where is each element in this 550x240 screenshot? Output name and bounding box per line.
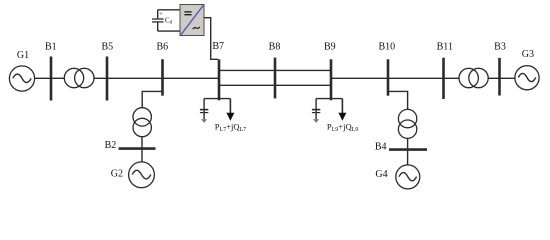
wire line B7-B9 circuit 1 — [219, 69, 331, 71]
svg-text:B10: B10 — [378, 41, 395, 52]
bus B3 — [498, 58, 501, 96]
wire T4 to G4 — [407, 138, 409, 165]
wire converter to B7 — [204, 18, 218, 60]
bus B8 — [274, 58, 277, 99]
converter dc symbol = — [184, 12, 191, 15]
generator G2 — [129, 162, 155, 188]
bus B1 — [50, 57, 53, 101]
svg-text:PL7+jQL7: PL7+jQL7 — [215, 121, 246, 133]
svg-text:B7: B7 — [212, 41, 224, 52]
load arrow L9 — [338, 99, 346, 121]
bus B5 — [106, 57, 109, 101]
wire B10 tap to T4 — [388, 91, 408, 109]
wire shunt capacitor B7 — [203, 99, 205, 120]
bus B2 — [119, 147, 156, 150]
svg-text:PL9+jQL9: PL9+jQL9 — [327, 121, 358, 133]
bus B11 — [442, 58, 445, 99]
capacitor Cd — [152, 10, 164, 31]
wire load tap at B7 — [204, 98, 230, 100]
converter diagonal — [181, 5, 203, 34]
generator G3 — [515, 66, 539, 90]
wire B6 tap to T3 — [142, 91, 162, 107]
svg-text:G2: G2 — [111, 168, 123, 179]
wire T3 to G2 — [141, 137, 143, 162]
wire shunt capacitor B9 — [315, 99, 317, 120]
bus B4 — [389, 148, 427, 151]
svg-text:+: + — [159, 11, 163, 18]
wire — [51, 77, 64, 79]
transformer T4 — [398, 109, 416, 138]
converter U1 box — [180, 5, 204, 36]
svg-text:Cd: Cd — [165, 16, 173, 25]
svg-text:G4: G4 — [375, 169, 387, 180]
svg-text:B2: B2 — [105, 140, 117, 151]
transformer T3 — [133, 108, 151, 137]
svg-text:B11: B11 — [437, 41, 453, 52]
load arrow L7 — [226, 99, 234, 121]
transformer T1 — [64, 68, 94, 87]
svg-text:B9: B9 — [324, 41, 336, 52]
svg-text:B1: B1 — [45, 41, 57, 52]
svg-text:B4: B4 — [375, 141, 387, 152]
svg-text:B6: B6 — [156, 41, 168, 52]
svg-text:B5: B5 — [101, 41, 113, 52]
wire dc link bottom — [158, 30, 180, 32]
ground arrow B9 shunt — [313, 119, 319, 123]
wire — [500, 77, 515, 79]
wire — [107, 77, 163, 79]
wire — [388, 77, 444, 79]
wire line B7-B9 circuit 2 — [219, 84, 331, 86]
ground arrow B7 shunt — [201, 119, 207, 123]
wire — [331, 77, 388, 79]
wire — [94, 77, 107, 79]
wire dc link top — [158, 9, 180, 11]
wire — [488, 77, 499, 79]
bus B9 — [330, 59, 333, 100]
wire load tap at B9 — [316, 98, 342, 100]
wire — [35, 77, 51, 79]
svg-text:G1: G1 — [17, 50, 29, 61]
wire — [444, 77, 460, 79]
transformer T2 — [459, 68, 488, 87]
bus B10 — [387, 59, 390, 95]
generator G4 — [396, 165, 420, 189]
svg-text:B8: B8 — [269, 41, 281, 52]
capacitor plates B7 — [200, 110, 208, 113]
bus B6 — [161, 59, 164, 95]
wire — [163, 77, 220, 79]
svg-text:B3: B3 — [494, 41, 506, 52]
svg-text:G3: G3 — [522, 49, 534, 60]
bus B7 — [218, 59, 221, 100]
converter ac symbol ~ — [193, 27, 200, 29]
generator G1 — [9, 66, 34, 91]
capacitor plates B9 — [312, 110, 320, 113]
